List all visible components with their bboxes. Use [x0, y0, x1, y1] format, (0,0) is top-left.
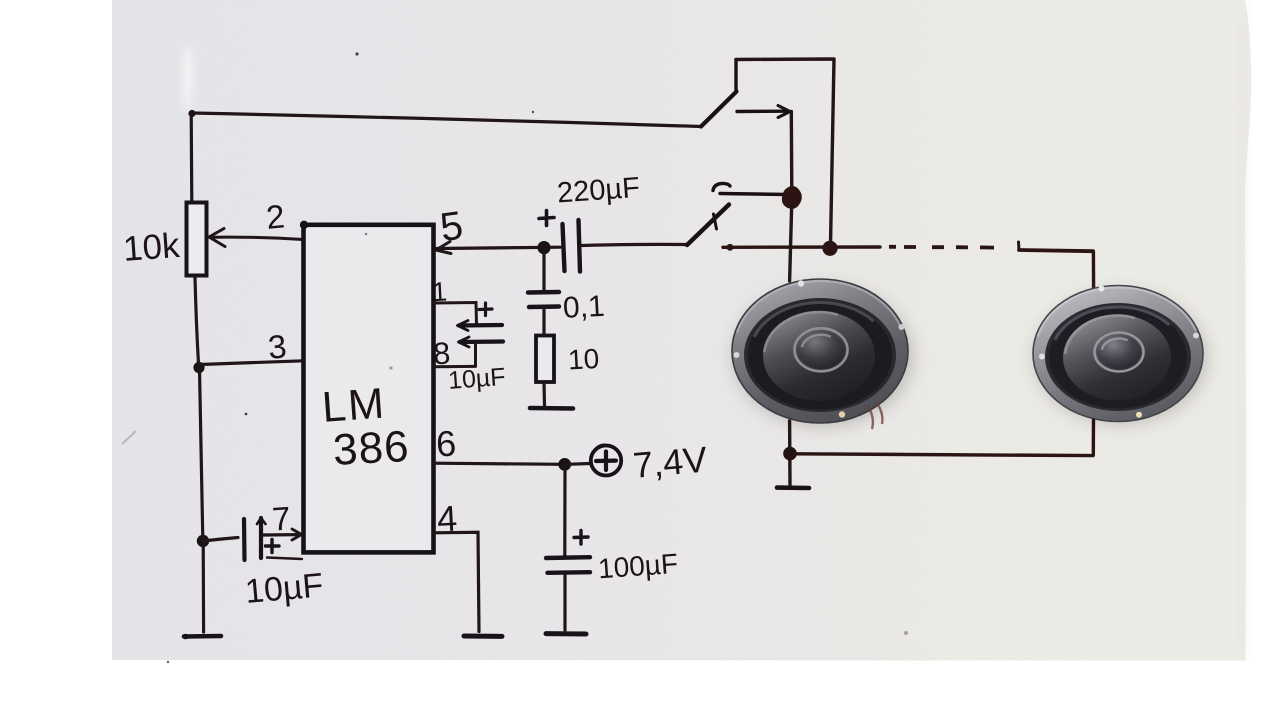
- label 0,1: [562, 290, 605, 325]
- label 1: [431, 277, 448, 308]
- label 5: [437, 203, 465, 250]
- loudspeaker 1: [732, 279, 911, 429]
- label 8: [432, 336, 451, 372]
- faint pencil mark left: [122, 431, 136, 444]
- wire: pin6 node down to 100uF: [563, 466, 566, 556]
- svg-text:10µF: 10µF: [244, 566, 325, 611]
- potentiometer wiper arrow: [209, 229, 303, 247]
- node dot pin3 junction: [193, 362, 204, 373]
- wire: speaker 1 bottom to ground node: [788, 421, 792, 485]
- label 10: [567, 343, 600, 376]
- label 2: [265, 197, 287, 235]
- supply symbol +7,4V: [567, 445, 621, 475]
- label 10uF (input cap): [244, 566, 325, 611]
- node blob switch junction: [783, 187, 801, 208]
- node dot top-left corner: [188, 110, 195, 117]
- wire: 220uF to switch 2 lever: [582, 244, 688, 245]
- label 4: [436, 497, 458, 539]
- svg-text:7: 7: [271, 499, 292, 537]
- wire: resistor to ground: [542, 383, 546, 407]
- label 6: [435, 422, 457, 464]
- wire: pin 1 to bypass cap: [434, 303, 477, 325]
- svg-text:10µF: 10µF: [447, 363, 506, 395]
- capacitor 10uF bypass (pins 1-8): [458, 303, 504, 366]
- label 7,4V: [631, 438, 708, 485]
- potentiometer 10k body: [187, 203, 207, 276]
- label 100uF: [597, 548, 679, 585]
- capacitor 220uF: [539, 211, 580, 272]
- wire: vertical from top corner to potentiometer: [190, 113, 194, 202]
- node dot pin7 junction: [197, 535, 209, 547]
- wire: switch1 alternate throw with arrowhead: [737, 106, 790, 118]
- wire: pin 4 to ground: [434, 532, 479, 631]
- svg-text:6: 6: [435, 422, 457, 464]
- node dot pin6 junction: [558, 458, 571, 471]
- label 10uF (bypass): [447, 363, 506, 395]
- wire: dashed speaker link: [889, 242, 1093, 251]
- wire: top bus from pot top to switch 1: [191, 113, 701, 127]
- capacitor 0,1: [528, 292, 559, 307]
- svg-text:7,4V: 7,4V: [631, 438, 708, 485]
- switch 1 (upper SPDT): [701, 60, 737, 127]
- wire: down to speaker 2: [1092, 252, 1096, 289]
- ground symbol left: [183, 634, 221, 640]
- svg-text:2: 2: [265, 197, 287, 235]
- Zobel: wire node down to 0.1 cap: [542, 249, 545, 291]
- ground symbol speakers: [777, 485, 809, 490]
- label 3: [267, 327, 289, 365]
- wire: switch1 top rail: [736, 59, 834, 245]
- wire: pot bottom down to pin3 node: [195, 277, 199, 366]
- svg-text:100µF: 100µF: [597, 548, 679, 585]
- resistor 10: [536, 336, 554, 383]
- wire: blob down to speaker 1: [790, 201, 792, 281]
- svg-text:3: 3: [267, 327, 289, 365]
- ground symbol zobel: [530, 406, 573, 411]
- label 220uF: [556, 172, 641, 210]
- wire: pin 8: [434, 365, 476, 368]
- svg-text:10: 10: [567, 343, 600, 376]
- ground symbol 100uF: [546, 631, 586, 636]
- wire: speaker line solid to big node: [723, 245, 880, 249]
- node dot pin2 corner: [300, 221, 308, 229]
- capacitor 100uF: [546, 531, 590, 573]
- wire: pin 5 with arrowhead to 220uF node: [436, 242, 560, 254]
- node dot speaker ground junction: [783, 447, 797, 461]
- svg-text:220µF: 220µF: [556, 172, 641, 210]
- wire: vertical from throw down to speaker node: [790, 112, 794, 193]
- label LM: [321, 379, 388, 431]
- wire: pin 3 to IC: [200, 361, 303, 365]
- wire: pin 6 to supply node: [434, 463, 562, 464]
- node dot speaker line start: [727, 244, 734, 251]
- label 10k: [122, 226, 182, 269]
- loudspeaker 2: [1033, 286, 1206, 424]
- paper specks: [167, 52, 908, 663]
- label 7: [271, 499, 292, 537]
- wire: 0,1 cap to resistor 10: [542, 308, 545, 335]
- wire: 100uF to ground: [563, 574, 566, 631]
- wire: pin7 node down to ground: [202, 543, 206, 632]
- correction fluid smudge: [184, 44, 193, 110]
- wire: speaker return bus: [794, 454, 1093, 456]
- switch 2 (lower SPDT): [687, 183, 788, 245]
- node dot pin5 junction: [537, 241, 550, 254]
- label 386: [332, 422, 411, 475]
- op-amp IC LM386 body: [304, 225, 434, 553]
- ground symbol pin4: [464, 634, 502, 639]
- svg-text:0,1: 0,1: [562, 290, 605, 325]
- capacitor 10uF input (pin 7): [203, 518, 302, 560]
- node dot big junction: [822, 241, 837, 256]
- wire: up to speaker 2 bottom: [1092, 420, 1096, 455]
- wire: pin3 node down to pin7 node: [200, 369, 203, 539]
- svg-text:386: 386: [332, 422, 411, 475]
- svg-text:10k: 10k: [122, 226, 182, 269]
